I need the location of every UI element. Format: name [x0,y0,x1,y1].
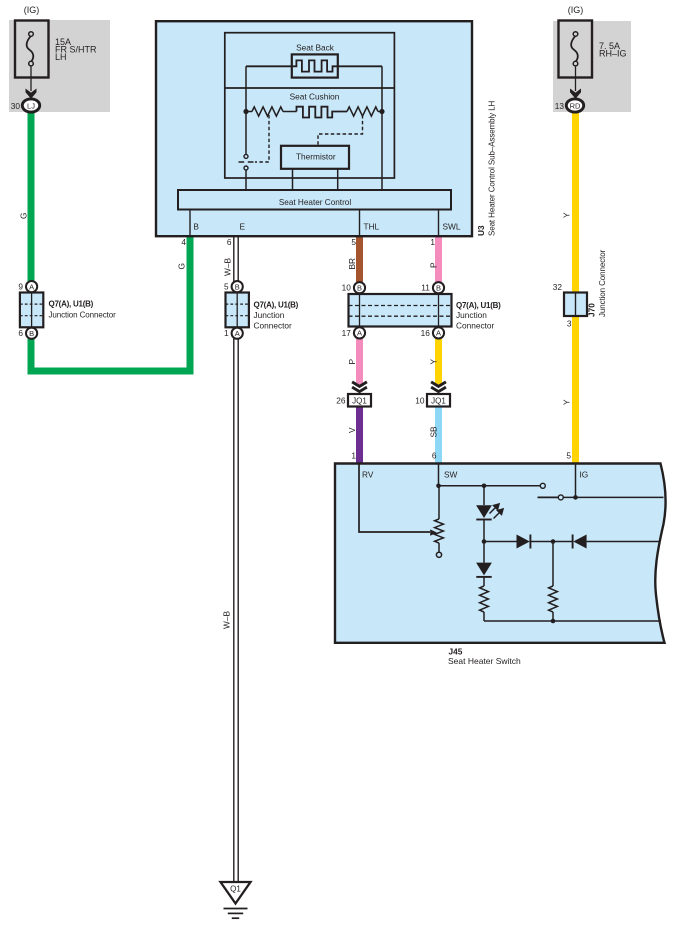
svg-text:13: 13 [555,101,565,111]
svg-text:4: 4 [181,237,186,247]
svg-text:LH: LH [55,52,67,62]
svg-text:Seat Heater Control Sub–Assemb: Seat Heater Control Sub–Assembly LH [488,100,497,236]
svg-text:SWL: SWL [443,222,461,232]
svg-text:3: 3 [567,319,572,329]
svg-text:B: B [193,222,199,232]
svg-text:Y: Y [562,212,572,218]
svg-text:6: 6 [432,451,437,461]
svg-text:J70: J70 [587,303,597,317]
svg-text:P: P [347,359,357,365]
svg-text:5: 5 [224,282,229,292]
svg-text:32: 32 [553,282,563,292]
svg-text:10: 10 [342,283,352,293]
svg-text:Q1: Q1 [230,885,241,894]
svg-text:B: B [29,329,34,338]
svg-text:SB: SB [429,426,439,438]
svg-text:Q7(A), U1(B): Q7(A), U1(B) [254,301,299,310]
svg-text:RH–IG: RH–IG [599,49,627,59]
svg-text:B: B [436,283,441,292]
svg-text:JQ1: JQ1 [352,397,367,406]
svg-text:5: 5 [566,451,571,461]
svg-text:JQ1: JQ1 [431,397,446,406]
svg-text:5: 5 [351,237,356,247]
svg-text:17: 17 [342,328,352,338]
svg-text:11: 11 [421,283,430,293]
svg-text:B: B [235,282,240,291]
svg-text:G: G [177,263,187,269]
svg-text:6: 6 [18,328,23,338]
svg-text:B: B [357,283,362,292]
svg-text:LJ: LJ [27,101,35,110]
svg-text:Seat Heater Control: Seat Heater Control [279,198,352,207]
svg-text:(IG): (IG) [24,5,40,15]
svg-text:E: E [240,222,246,232]
svg-text:1: 1 [224,328,229,338]
svg-text:Junction: Junction [254,310,285,320]
svg-text:10: 10 [415,396,425,406]
svg-text:P: P [429,262,439,268]
svg-text:(IG): (IG) [568,5,584,15]
svg-text:Seat Heater Switch: Seat Heater Switch [448,656,521,666]
svg-text:A: A [29,282,34,291]
svg-text:U3: U3 [476,225,486,236]
svg-text:A: A [357,329,362,338]
svg-text:V: V [347,427,357,433]
svg-text:16: 16 [421,328,431,338]
svg-text:26: 26 [336,396,346,406]
svg-text:Seat Back: Seat Back [296,43,335,53]
svg-text:A: A [235,329,240,338]
svg-text:J45: J45 [449,647,463,657]
svg-text:9: 9 [18,282,23,292]
svg-text:Seat Cushion: Seat Cushion [290,92,340,102]
svg-text:A: A [436,329,441,338]
svg-text:6: 6 [227,237,232,247]
svg-text:W–B: W–B [223,258,233,276]
svg-text:Q7(A), U1(B): Q7(A), U1(B) [456,301,501,310]
svg-text:30: 30 [11,101,21,111]
svg-text:Y: Y [429,359,439,365]
svg-text:Q7(A), U1(B): Q7(A), U1(B) [49,300,94,309]
svg-text:Junction Connector: Junction Connector [49,311,117,320]
svg-text:Connector: Connector [456,320,495,330]
svg-text:RV: RV [362,470,374,480]
svg-text:W–B: W–B [222,611,232,629]
svg-text:RD: RD [570,101,581,110]
svg-text:1: 1 [351,451,356,461]
svg-text:Connector: Connector [254,321,293,331]
svg-text:Junction Connector: Junction Connector [598,249,607,317]
svg-text:SW: SW [444,470,458,480]
svg-text:BR: BR [347,258,357,270]
svg-text:Junction: Junction [456,310,487,320]
svg-text:Y: Y [562,399,572,405]
svg-text:THL: THL [364,222,380,232]
svg-text:Thermistor: Thermistor [296,152,336,162]
svg-text:G: G [19,213,29,219]
svg-text:IG: IG [580,470,589,480]
svg-text:1: 1 [430,237,435,247]
